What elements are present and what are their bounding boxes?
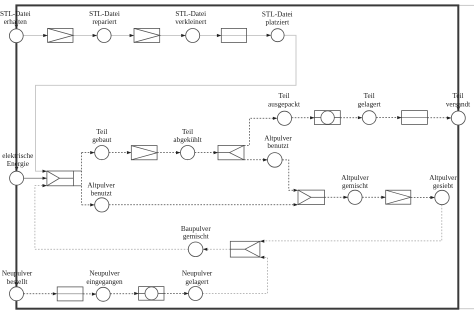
wire: dashed T6 bottom output to P12 Altpulver benutzt right bbox=[244, 159, 267, 161]
wire: solid P10 elektrische Energie to T4 middle input bbox=[24, 177, 47, 179]
place P17 Neupulver eingegangen bbox=[96, 287, 110, 301]
arrowhead into T5 bbox=[127, 151, 131, 154]
arrowhead into P6 bbox=[176, 151, 180, 154]
arrowhead into T6 bbox=[214, 151, 218, 154]
arrowhead into T13 bbox=[134, 292, 138, 295]
arrowhead into P14 bbox=[430, 196, 434, 199]
transition T8 versenden (plain) bbox=[402, 111, 428, 125]
arrowhead into T10 bbox=[381, 196, 385, 199]
wire: dashed T7 to P8 Teil gelagert bbox=[340, 117, 362, 119]
transition T1 reparieren bbox=[48, 28, 73, 42]
wire: T4 output stub top corner bbox=[73, 170, 81, 172]
place P18 Neupulver gelagert bbox=[189, 287, 203, 301]
svg-text:Neupulvergelagert: Neupulvergelagert bbox=[182, 270, 213, 286]
wire: dashed T12 to P17 Neupulver eingegangen bbox=[83, 293, 96, 295]
arrowhead into P8 bbox=[358, 116, 362, 119]
svg-text:Altpulverbenutzt: Altpulverbenutzt bbox=[264, 134, 292, 150]
arrowhead into T4 middle input bbox=[43, 177, 47, 180]
place P11 Altpulver benutzt left bbox=[95, 198, 109, 212]
arrowhead into P2 bbox=[93, 34, 97, 37]
wire: gray dashed Altpulver gesiebt to T11 top-right input bbox=[261, 205, 442, 241]
arrowhead into T12 bbox=[53, 292, 57, 295]
wire: dashed vertical T4 outputs split bbox=[81, 153, 83, 205]
wire: gray dashed Baupulver gemischt to T4 build bottom input bbox=[35, 186, 189, 250]
arrowhead thick into P10 top bbox=[15, 167, 19, 171]
wire: gray path P4 platziert to T4 build (solid light gray) bbox=[36, 35, 297, 171]
place P6 Teil abgekühlt bbox=[181, 146, 195, 160]
svg-text:STL-Dateierhalten: STL-Dateierhalten bbox=[0, 10, 31, 26]
wire: solid gray P2 to T2 bbox=[111, 35, 134, 37]
svg-text:Altpulvergemischt: Altpulvergemischt bbox=[341, 174, 369, 190]
place P5 Teil gebaut bbox=[95, 146, 109, 160]
wire: solid gray P3 through T3 to P4 platziert bbox=[200, 34, 271, 36]
wire: dashed T4 to P5 Teil gebaut bbox=[82, 152, 95, 154]
wire: dashed P17 to T13 bbox=[110, 293, 138, 295]
arrowhead into P5 bbox=[90, 151, 94, 154]
transition T10 sieben bbox=[386, 190, 411, 204]
place P10 elektrische Energie bbox=[10, 171, 24, 185]
place P4 STL-Datei platziert bbox=[271, 29, 284, 42]
wire: dashed P13 to T10 bbox=[362, 196, 386, 198]
transition T9 Altpulver mischen bbox=[298, 190, 325, 205]
arrowhead thick into P1 top bbox=[15, 25, 19, 29]
place P8 Teil gelagert bbox=[362, 111, 376, 125]
place P14 Altpulver gesiebt bbox=[435, 190, 449, 204]
place P13 Altpulver gemischt bbox=[348, 190, 362, 204]
transition T5 abkühlen bbox=[131, 146, 157, 160]
wire: dashed T5 to P6 abgekühlt bbox=[157, 152, 180, 154]
wire: dashed T10 to P14 Altpulver gesiebt bbox=[411, 196, 435, 198]
arrowhead into P11 bbox=[90, 203, 94, 206]
wire: dashed P6 to T6 bbox=[195, 152, 218, 154]
transition T12 bestellen (plain) bbox=[57, 287, 83, 301]
wire: dashed T6 top output to P7 ausgepackt bbox=[244, 118, 277, 145]
arrowhead into P4 bbox=[267, 34, 271, 37]
wire: T4 output stub bottom corner bbox=[73, 185, 81, 187]
transition T3 platzieren (plain) bbox=[221, 28, 246, 42]
svg-text:STL-Dateiverkleinert: STL-Dateiverkleinert bbox=[175, 10, 206, 26]
wire: solid through line of T8 bbox=[402, 117, 428, 119]
wire: dashed P12 to T9 top input bbox=[282, 160, 297, 190]
arrowhead into T7 bbox=[310, 116, 314, 119]
arrowhead into T4 bottom input bbox=[43, 184, 47, 187]
arrowhead into T4 top input bbox=[43, 170, 47, 173]
arrowhead into T1 bbox=[43, 34, 47, 37]
svg-text:Neupulvereingegangen: Neupulvereingegangen bbox=[86, 270, 123, 286]
wire: dashed P11 to T9 bottom input (long) bbox=[109, 204, 298, 206]
place P3 STL-Datei verkleinert bbox=[186, 29, 200, 43]
arrowhead into T8 bbox=[397, 116, 401, 119]
place P7 Teil ausgepackt bbox=[277, 111, 291, 125]
svg-text:elektrischeEnergie: elektrischeEnergie bbox=[2, 152, 33, 168]
arrowhead thick into P16 top bbox=[15, 283, 19, 287]
wire: gray dashed Neupulver gelagert to T11 bottom-right input bbox=[203, 257, 268, 293]
arrowhead into P12 bbox=[263, 158, 267, 161]
transition T4 bauen bbox=[47, 171, 74, 186]
svg-text:STL-Dateiplatziert: STL-Dateiplatziert bbox=[262, 11, 293, 27]
arrowhead into P9 left bbox=[447, 116, 451, 119]
wire: solid gray T1 to P2 repariert bbox=[73, 35, 97, 37]
wire: solid gray T2 to P3 verkleinert bbox=[160, 35, 186, 37]
arrowhead into T11 top-right bbox=[260, 240, 264, 243]
wire: dashed P5 to T5 bbox=[109, 152, 131, 154]
transition T11 Baupulver mischen join bbox=[230, 241, 260, 257]
arrowhead into T9 top input bbox=[294, 189, 298, 192]
transition T7 lagern (circle in rect) bbox=[315, 111, 341, 125]
place P12 Altpulver benutzt right bbox=[268, 153, 283, 168]
wire: dashed P16 Neupulver bestellt to T12 bbox=[24, 293, 58, 295]
arrowhead thick into P9 top bbox=[457, 107, 461, 111]
svg-text:Baupulvergemischt: Baupulvergemischt bbox=[181, 225, 212, 241]
arrowhead into P15 right bbox=[203, 248, 207, 251]
wire: solid through line of T12 bbox=[57, 293, 83, 295]
arrowhead into T11 bottom-right bbox=[260, 256, 264, 259]
wire: dashed T4 to P11 Altpulver benutzt left bbox=[82, 204, 95, 206]
transition T2 verkleinern bbox=[134, 28, 160, 42]
arrowhead into P7 bbox=[273, 117, 277, 120]
arrowhead into P18 bbox=[184, 292, 188, 295]
wire: dashed P7 to T7 bbox=[292, 117, 315, 119]
arrowhead into T3 bbox=[217, 34, 221, 37]
svg-text:Altpulvergesiebt: Altpulvergesiebt bbox=[429, 174, 457, 190]
transition T6 auspacken split bbox=[218, 145, 244, 159]
wire: dashed T8 to P9 Teil versandt bbox=[427, 117, 451, 119]
transition T13 Neupulver lagern (circle in rect) bbox=[139, 287, 164, 301]
frame stub bottom-right (thin gray) bbox=[458, 308, 474, 310]
svg-text:STL-Dateirepariert: STL-Dateirepariert bbox=[89, 10, 120, 26]
arrowhead into P17 bbox=[92, 293, 96, 296]
frame stub top-right (thin gray) bbox=[458, 4, 474, 6]
place P2 STL-Datei repariert bbox=[97, 29, 111, 43]
arrowhead into P3 bbox=[181, 34, 185, 37]
wire: dashed P8 to T8 bbox=[376, 117, 401, 119]
arrowhead into T2 bbox=[130, 34, 134, 37]
svg-text:Altpulverbenutzt: Altpulverbenutzt bbox=[87, 181, 115, 197]
wire: dashed T9 to P13 Altpulver gemischt bbox=[325, 196, 348, 198]
arrowhead into P13 bbox=[344, 196, 348, 199]
wire: solid gray P1 erhalten to T1 bbox=[23, 35, 47, 37]
wire: dashed T13 to P18 Neupulver gelagert bbox=[164, 293, 188, 295]
place P15 Baupulver gemischt bbox=[188, 242, 203, 257]
place P1 STL-Datei erhalten bbox=[9, 29, 23, 43]
place P16 Neupulver bestellt bbox=[10, 287, 24, 301]
arrowhead into T9 bottom input bbox=[294, 203, 298, 206]
wire: gray dashed T11 to Baupulver gemischt bbox=[203, 248, 230, 250]
place P9 Teil versandt bbox=[451, 111, 465, 125]
